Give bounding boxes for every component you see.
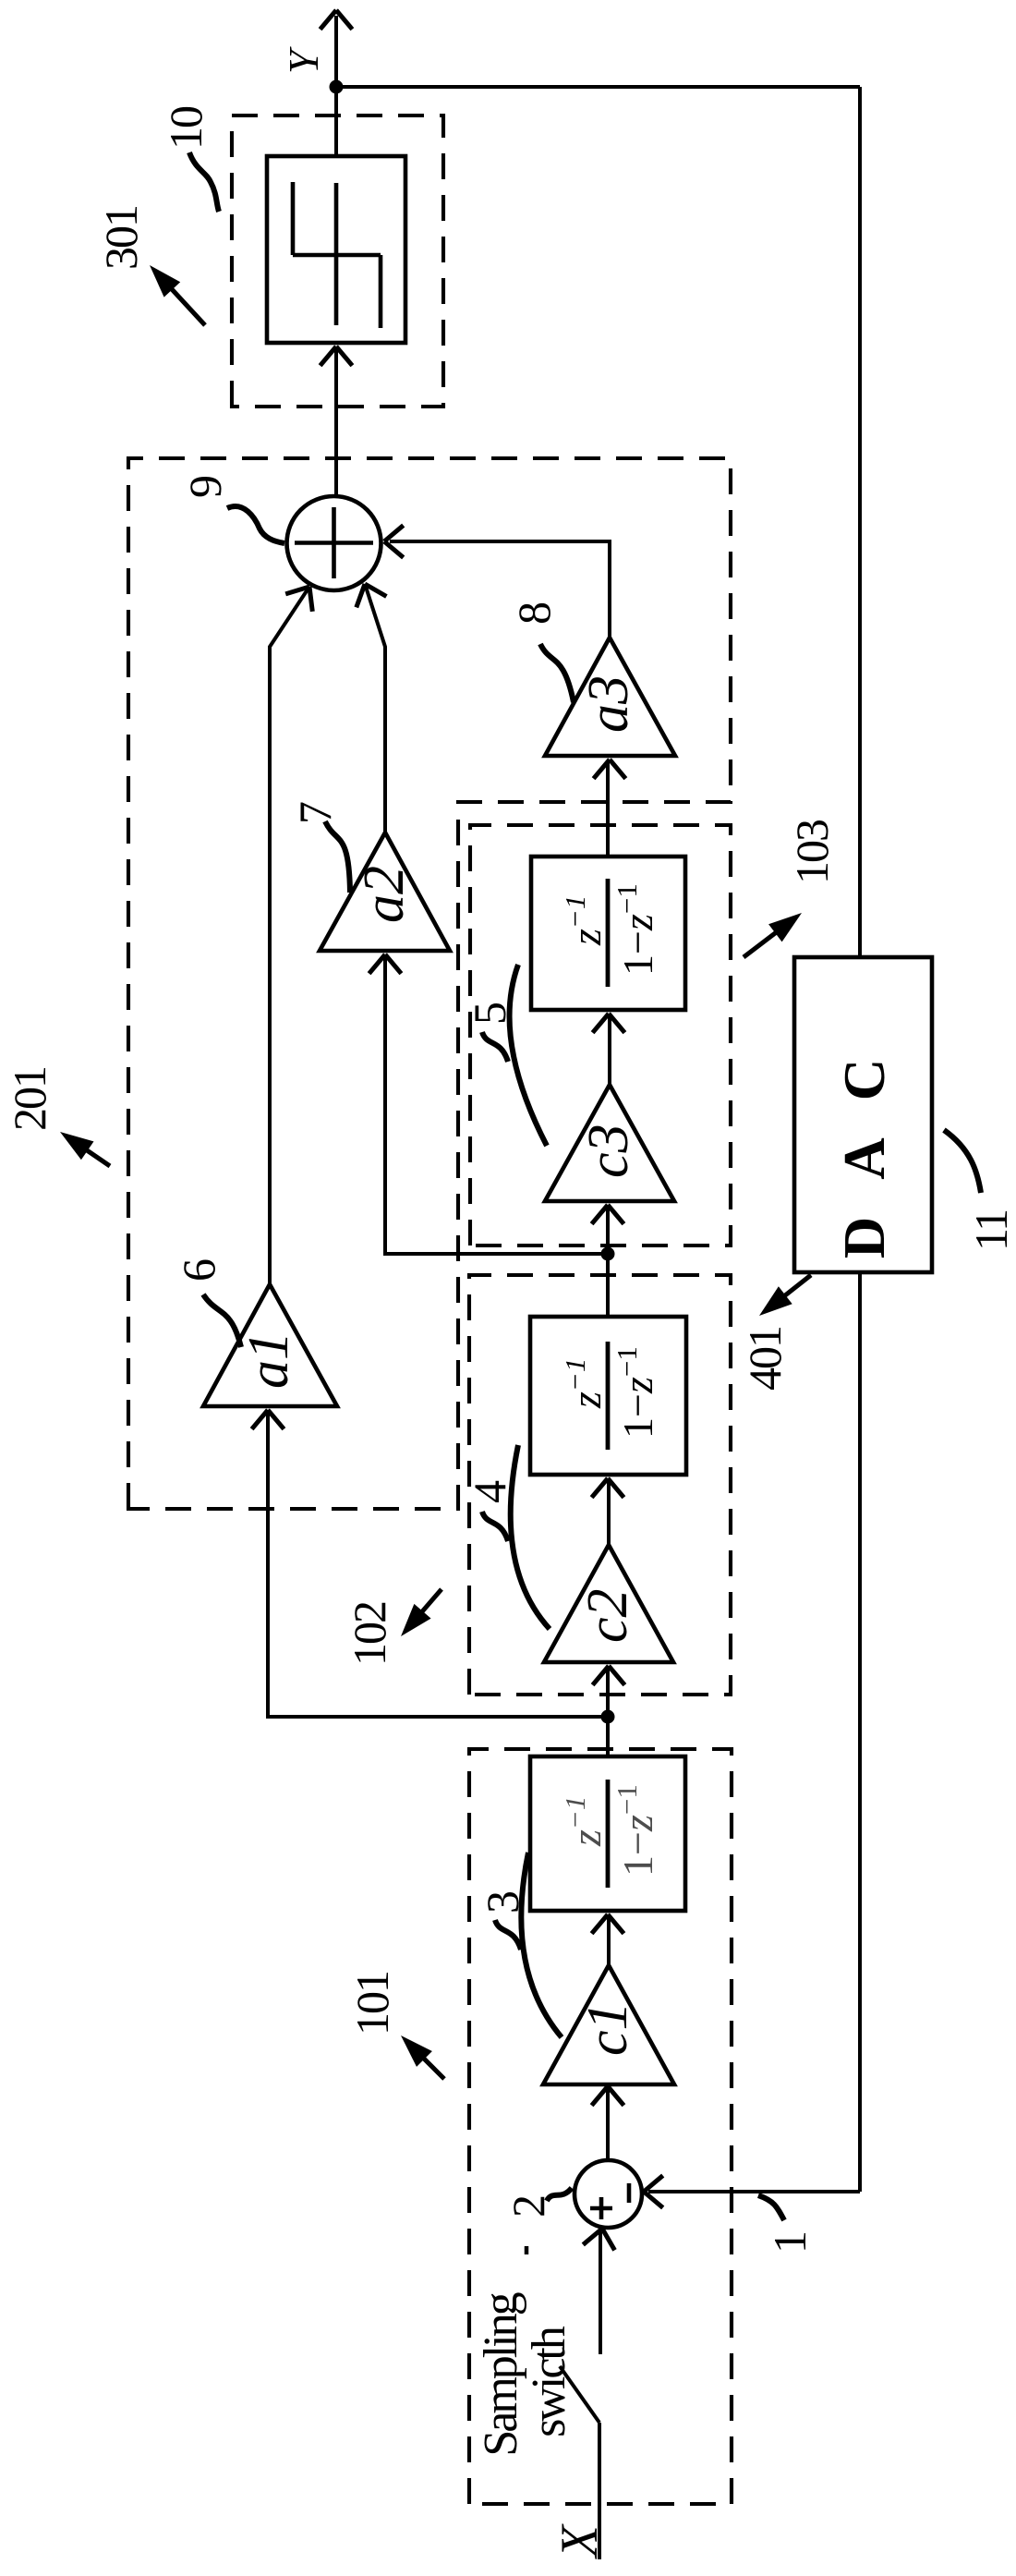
svg-text:z−1: z−1 — [559, 895, 610, 946]
wire switch to summer — [583, 2229, 614, 2354]
svg-text:1: 1 — [764, 2230, 816, 2254]
label 401 — [739, 1327, 791, 1391]
svg-text:Y: Y — [280, 46, 327, 74]
svg-text:z−1: z−1 — [559, 1358, 610, 1409]
svg-text:201: 201 — [4, 1067, 55, 1131]
svg-text:11: 11 — [965, 1210, 1016, 1251]
svg-text:z−1: z−1 — [559, 1796, 610, 1847]
wire summer U2 to c1 — [592, 2086, 624, 2160]
Z1 fraction bar — [606, 1780, 611, 1888]
label a2 — [353, 866, 416, 923]
svg-text:4: 4 — [464, 1480, 515, 1503]
label 5 — [464, 1002, 515, 1025]
label a1 — [237, 1331, 300, 1389]
amplifier a2 triangle — [320, 832, 450, 951]
arrow to label 201 — [60, 1132, 110, 1166]
summer U9 plus sign — [295, 507, 373, 578]
summer U2 plus sign — [590, 2197, 612, 2219]
svg-text:1−z−1: 1−z−1 — [611, 1346, 661, 1439]
wire a2 to summer U9 — [357, 584, 387, 832]
leader arc for label 3 — [495, 1853, 562, 2037]
node B junction dot — [601, 1247, 615, 1261]
Z2 fraction bar — [606, 1342, 611, 1450]
amplifier a3 triangle — [545, 638, 675, 756]
label 6 — [173, 1259, 224, 1282]
minus mark near label 2 — [525, 2246, 529, 2254]
integrator Z2 box — [530, 1317, 686, 1475]
wire z1 to c2 — [593, 1666, 625, 1756]
integrator Z3 box — [531, 857, 685, 1010]
label 4 — [464, 1480, 515, 1503]
svg-text:1−z−1: 1−z−1 — [611, 883, 661, 976]
wire c1 to z1 — [592, 1914, 624, 1965]
label 8 — [508, 602, 560, 625]
label a3 — [577, 675, 640, 733]
svg-text:a3: a3 — [577, 675, 640, 733]
leader for label 2 — [547, 2188, 572, 2201]
dashed box 10 — [232, 115, 443, 407]
dashed box 101 — [469, 1749, 732, 2504]
leader for label 10 — [189, 152, 219, 212]
svg-text:103: 103 — [786, 820, 838, 884]
Z1 numerator z^-1 — [559, 1796, 610, 1847]
svg-text:c3: c3 — [577, 1124, 640, 1178]
wire feedback vertical from node Y — [336, 85, 860, 89]
label 2 — [502, 2196, 554, 2218]
wire feedback into summer U2 — [644, 2176, 860, 2208]
node A junction dot — [601, 1710, 615, 1724]
input X label — [550, 2523, 609, 2559]
wire summer U9 to quantizer — [321, 346, 353, 496]
label c2 — [576, 1588, 639, 1643]
sampling switch S1 blade — [560, 2366, 599, 2423]
svg-text:Sampling: Sampling — [475, 2291, 527, 2456]
quantizer U10 box — [267, 156, 405, 343]
svg-text:a2: a2 — [353, 866, 416, 923]
svg-text:301: 301 — [95, 206, 147, 270]
label c1 — [576, 2001, 639, 2056]
node Y junction dot — [330, 80, 344, 94]
Z1 denominator 1-z^-1 — [611, 1784, 661, 1877]
Z3 denominator 1-z^-1 — [611, 883, 661, 976]
leader arc for label 5 — [482, 965, 547, 1146]
svg-text:1−z−1: 1−z−1 — [611, 1784, 661, 1877]
wire c2 to z2 — [592, 1478, 624, 1545]
output Y label — [280, 46, 327, 74]
svg-text:9: 9 — [179, 477, 231, 498]
amplifier c2 triangle — [544, 1545, 673, 1662]
svg-text:c1: c1 — [576, 2001, 639, 2056]
wire node A up to a1 — [252, 1410, 608, 1717]
amplifier c3 triangle — [545, 1085, 674, 1201]
arrow to label 102 — [401, 1589, 441, 1636]
leader arc for label 4 — [482, 1445, 550, 1629]
arrow to label 103 — [744, 913, 802, 957]
label DAC — [832, 1022, 897, 1259]
wire c3 to z3 — [593, 1014, 625, 1085]
wire node B up to a2 — [369, 954, 608, 1254]
svg-text:101: 101 — [346, 1972, 398, 2035]
svg-text:8: 8 — [508, 602, 560, 625]
leader for label 8 — [540, 644, 574, 702]
label Sampling swicth — [475, 2291, 575, 2456]
arrow to label 301 — [150, 265, 205, 325]
DAC U11 box — [794, 957, 932, 1272]
svg-text:10: 10 — [160, 106, 212, 150]
quantizer transfer glyph — [293, 182, 381, 328]
label 103 — [786, 820, 838, 884]
wire a3 to summer U9 — [384, 526, 610, 638]
dashed box 201 outline — [128, 458, 731, 1509]
label 7 — [289, 802, 341, 824]
label 102 — [344, 1602, 395, 1666]
summer U2 minus sign — [627, 2183, 632, 2203]
label 301 — [95, 206, 147, 270]
summer U2 circle — [575, 2160, 642, 2228]
svg-text:swicth: swicth — [523, 2326, 575, 2437]
wire quantizer to Y output — [321, 10, 353, 156]
wire z2 to c3 — [592, 1205, 624, 1317]
integrator Z1 box — [530, 1756, 685, 1911]
leader for label 11 — [944, 1130, 981, 1193]
leader for label 1 — [758, 2195, 784, 2220]
svg-text:DAC: DAC — [832, 1022, 897, 1259]
svg-text:a1: a1 — [237, 1331, 300, 1389]
arrow to label 401 — [759, 1275, 811, 1316]
amplifier a1 triangle — [203, 1284, 337, 1406]
leader for label 9 — [227, 506, 284, 543]
Z3 fraction bar — [606, 879, 611, 987]
dashed box 102 — [469, 1275, 731, 1695]
wire z3 to a3 — [594, 759, 626, 857]
svg-text:102: 102 — [344, 1602, 395, 1666]
label 9 — [179, 477, 231, 498]
label 10 — [160, 106, 212, 150]
Z3 numerator z^-1 — [559, 895, 610, 946]
wire a1 to summer U9 — [270, 587, 312, 1284]
svg-text:6: 6 — [173, 1259, 224, 1282]
leader for label 6 — [203, 1294, 241, 1347]
amplifier c1 triangle — [543, 1965, 674, 2084]
label c3 — [577, 1124, 640, 1178]
label 11 — [965, 1210, 1016, 1251]
label 3 — [477, 1891, 528, 1914]
leader for label 7 — [325, 821, 350, 893]
wire X input — [598, 2423, 601, 2559]
label 201 — [4, 1067, 55, 1131]
Z2 numerator z^-1 — [559, 1358, 610, 1409]
svg-text:7: 7 — [289, 802, 341, 824]
wire feedback bottom rail to DAC and summer U2 — [858, 87, 862, 2192]
label 101 — [346, 1972, 398, 2035]
label 1 — [764, 2230, 816, 2254]
dashed box 103 — [470, 825, 731, 1245]
summer U9 circle — [287, 496, 381, 590]
arrow to label 101 — [401, 2035, 444, 2079]
svg-text:c2: c2 — [576, 1588, 639, 1643]
svg-text:401: 401 — [739, 1327, 791, 1391]
Z2 denominator 1-z^-1 — [611, 1346, 661, 1439]
